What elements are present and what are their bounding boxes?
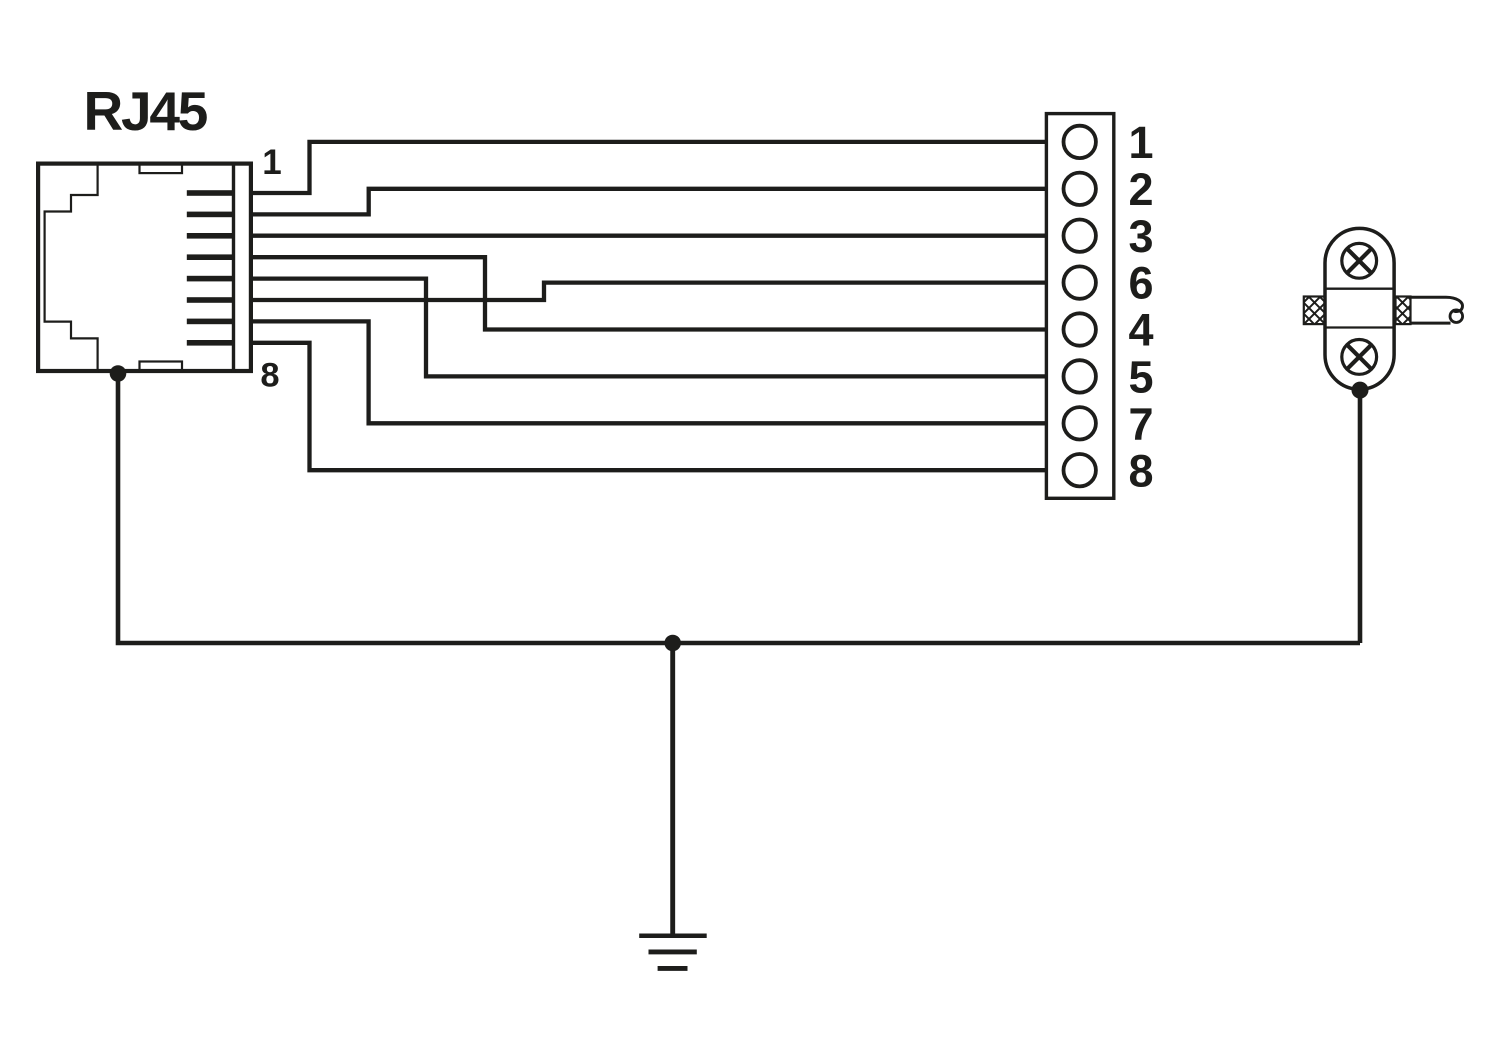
terminal screw hole 6 — [1064, 266, 1096, 298]
cable hatch ferrule right — [1396, 297, 1411, 325]
ground wire from RJ45 shield down and across — [118, 373, 1360, 643]
svg-text:8: 8 — [260, 357, 279, 395]
svg-text:3: 3 — [1128, 211, 1153, 262]
wire pin4 to terminal 4 — [251, 257, 1049, 329]
ground wire from cable clamp down — [1358, 390, 1363, 643]
wire pin2 to terminal 2 — [251, 189, 1049, 215]
ground symbol bar 3 — [658, 966, 688, 971]
terminal screw hole 1 — [1064, 126, 1096, 158]
svg-text:6: 6 — [1128, 258, 1153, 309]
ground stem wire — [670, 643, 675, 934]
wire pin3 to terminal 3 — [251, 234, 1049, 238]
svg-text:1: 1 — [262, 143, 281, 182]
junction RJ45 shield — [110, 365, 127, 382]
svg-text:RJ45: RJ45 — [84, 80, 208, 142]
svg-text:8: 8 — [1128, 445, 1153, 496]
svg-text:5: 5 — [1128, 352, 1153, 403]
terminal screw hole 3 — [1064, 220, 1096, 252]
svg-text:4: 4 — [1128, 305, 1153, 356]
RJ45 pin 1 — [187, 190, 234, 196]
terminal screw hole 2 — [1064, 173, 1096, 205]
cable hatch ferrule left — [1304, 297, 1325, 325]
terminal screw hole 8 — [1064, 454, 1096, 486]
wire pin7 to terminal 7 — [251, 321, 1049, 423]
terminal screw hole 4 — [1064, 313, 1096, 345]
RJ45 pin 2 — [187, 212, 234, 218]
wire pin5 to terminal 5 — [251, 279, 1049, 377]
svg-text:7: 7 — [1128, 398, 1153, 449]
cable stub with cut end — [1409, 297, 1462, 311]
cable clamp band bottom line — [1325, 326, 1394, 328]
wire pin8 to terminal 8 — [251, 343, 1049, 470]
svg-text:2: 2 — [1128, 164, 1153, 215]
svg-text:1: 1 — [1128, 117, 1153, 168]
RJ45 bottom latch notch — [140, 362, 183, 372]
ground symbol bar 2 — [649, 949, 697, 954]
RJ45 pin-strip inner line — [232, 162, 235, 374]
RJ45 pin 3 — [187, 233, 234, 239]
clamp screw bottom — [1342, 340, 1377, 375]
junction ground node — [664, 635, 681, 652]
RJ45 plug opening stepped outline — [45, 162, 98, 374]
wire pin6 to terminal 6 — [251, 283, 1049, 300]
junction clamp node — [1352, 382, 1369, 399]
RJ45 pin 6 — [187, 297, 234, 303]
RJ45 pin 4 — [187, 254, 234, 260]
RJ45 top latch notch — [140, 164, 183, 174]
terminal screw hole 5 — [1064, 360, 1096, 392]
terminal screw hole 7 — [1064, 407, 1096, 439]
RJ45 pin 5 — [187, 276, 234, 282]
cable clamp band top line — [1325, 288, 1394, 290]
terminal block body — [1046, 114, 1113, 499]
cable clamp body — [1325, 228, 1394, 389]
ground symbol bar 1 — [639, 933, 707, 938]
clamp screw top — [1342, 243, 1377, 278]
RJ45 pin 8 — [187, 340, 234, 346]
RJ45 connector J1 body — [38, 164, 251, 371]
RJ45 pin 7 — [187, 319, 234, 325]
wire pin1 to terminal 1 — [251, 142, 1049, 193]
